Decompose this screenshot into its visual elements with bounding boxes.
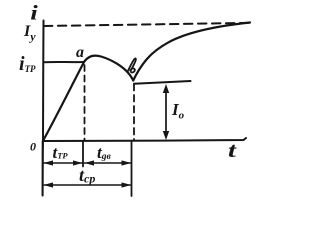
label v (script) [128, 58, 136, 72]
Io arrow shaft [165, 88, 167, 136]
row1 left arrowhead [44, 160, 54, 165]
below-axis vertical at a [82, 141, 84, 167]
svg-text:i: i [30, 1, 38, 24]
dashed vertical at a [84, 65, 86, 140]
dim row1 shaft t_dv [84, 162, 131, 164]
below-axis vertical at v [131, 141, 133, 196]
svg-text:a: a [76, 44, 84, 61]
curve: linear rise 0 to a [43, 62, 84, 141]
svg-text:t: t [228, 139, 237, 162]
Io arrowhead top [163, 84, 169, 93]
row2 right arrowhead [122, 182, 132, 187]
Io arrowhead bottom [163, 131, 169, 140]
row1 mid-left arrowhead [73, 160, 83, 165]
dim row2 shaft t_sr [44, 184, 131, 186]
x-axis t with end flick [43, 138, 246, 141]
dashed vertical at v [133, 84, 135, 140]
svg-text:0: 0 [30, 140, 36, 154]
Io top reference line from v [134, 81, 191, 84]
y-axis i [42, 21, 45, 196]
below-axis vertical at 0 [42, 141, 44, 196]
curve: recovery rise v to Iy [133, 23, 250, 81]
dashed asymptote line Iy [44, 23, 251, 26]
curve: hump a to cusp v [84, 56, 133, 81]
row1 right arrowhead [122, 160, 132, 165]
row1 mid-right arrowhead [85, 160, 95, 165]
row2 left arrowhead [44, 182, 54, 187]
i_tr pickup level line [44, 61, 84, 63]
dim row1 shaft t_tr [44, 162, 82, 164]
